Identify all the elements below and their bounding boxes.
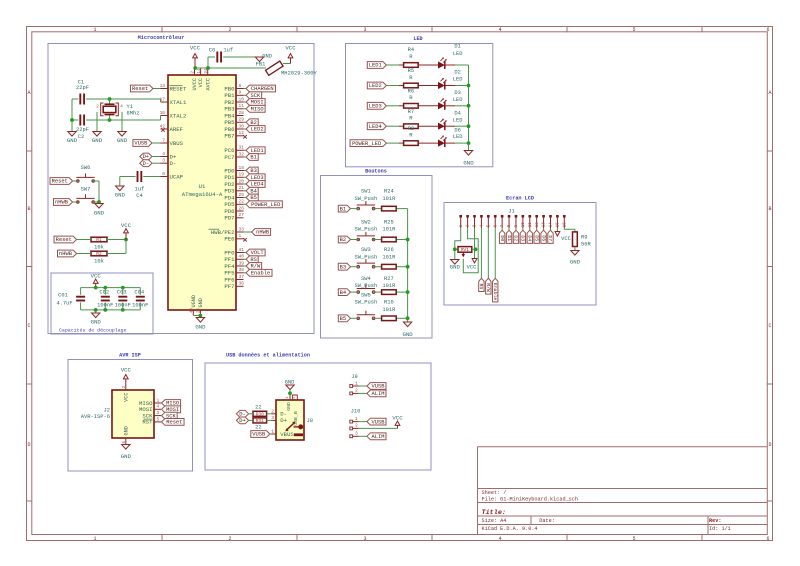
wire SW7 to junction xyxy=(73,201,99,203)
global label RS xyxy=(246,256,258,263)
no-connect AREF xyxy=(161,128,165,132)
svg-text:3: 3 xyxy=(363,536,366,542)
resistor R24 101R xyxy=(382,188,397,211)
global label VUSB at J10 xyxy=(367,418,386,425)
U1 pin 10 PB2 xyxy=(224,96,244,105)
svg-text:GND: GND xyxy=(117,137,128,144)
svg-text:GND: GND xyxy=(124,426,130,435)
svg-text:LED1: LED1 xyxy=(369,62,382,69)
ground J8 shield xyxy=(285,378,295,389)
svg-text:2: 2 xyxy=(355,388,358,394)
svg-text:C2: C2 xyxy=(78,133,85,140)
svg-text:22pF: 22pF xyxy=(76,84,89,91)
LED D3 xyxy=(438,89,462,110)
svg-text:GND: GND xyxy=(403,331,414,338)
svg-text:Microcontrôleur: Microcontrôleur xyxy=(138,35,185,41)
svg-text:28: 28 xyxy=(239,110,245,116)
U1 pin 19 PD1 xyxy=(224,172,244,181)
svg-text:D0: D0 xyxy=(499,235,505,241)
svg-text:3: 3 xyxy=(157,410,160,416)
svg-text:C4: C4 xyxy=(136,192,143,199)
U1 pin 9 PB1 xyxy=(224,90,243,99)
wire U1 ground xyxy=(193,315,200,317)
global label D1 vertical xyxy=(506,230,512,243)
capacitor C2 22pF xyxy=(76,115,89,140)
svg-text:11: 11 xyxy=(239,103,245,109)
power VCC LCD backlight xyxy=(555,232,572,243)
svg-text:2: 2 xyxy=(228,536,231,542)
resistor R1 10k xyxy=(91,237,107,250)
U1 pin 12 PB7 xyxy=(224,130,246,139)
resistor R7 R xyxy=(404,108,419,129)
svg-text:GND: GND xyxy=(285,378,295,385)
switch SW1 SW_Push xyxy=(355,188,378,210)
svg-text:1: 1 xyxy=(271,429,274,435)
svg-text:AREF: AREF xyxy=(170,126,184,133)
U1 bottom power pins UGND GND xyxy=(191,295,205,315)
svg-text:PF7: PF7 xyxy=(224,283,234,290)
svg-text:2: 2 xyxy=(96,105,99,110)
global label Reset at SW6 xyxy=(50,178,73,185)
svg-text:D5: D5 xyxy=(533,235,539,241)
svg-text:C03: C03 xyxy=(117,288,127,295)
U1 pin 28 PB4 xyxy=(224,110,244,119)
svg-text:8Mhz: 8Mhz xyxy=(127,109,140,116)
svg-text:1: 1 xyxy=(355,380,358,386)
U1 pin 8 PB0 xyxy=(224,83,243,92)
svg-text:D3: D3 xyxy=(520,235,526,241)
svg-text:Ecran LCD: Ecran LCD xyxy=(506,196,534,202)
wire PB5 to label xyxy=(244,121,247,123)
switch SW3 SW_Push xyxy=(355,246,378,268)
connector J8 USB_B xyxy=(271,395,313,441)
svg-text:FB1: FB1 xyxy=(256,60,266,67)
U1 pin 30 PB6 xyxy=(224,123,244,132)
svg-text:UCAP: UCAP xyxy=(170,173,184,180)
svg-text:100nF: 100nF xyxy=(115,302,131,309)
svg-text:R9: R9 xyxy=(581,233,588,240)
svg-text:R10: R10 xyxy=(384,299,394,306)
power VCC LCD contrast xyxy=(467,259,477,271)
connector J10 xyxy=(350,407,361,437)
U1 pin 22 PD5 xyxy=(224,199,244,208)
wire J1 pin13 to D6 xyxy=(543,228,545,230)
svg-text:5: 5 xyxy=(632,27,635,33)
svg-text:nHWB: nHWB xyxy=(256,229,270,236)
svg-text:Reset: Reset xyxy=(52,178,68,185)
svg-text:Reset: Reset xyxy=(56,236,72,243)
global label B4 xyxy=(246,187,258,194)
wire PB1 to label xyxy=(244,94,247,96)
wire J1 pin1 to ground xyxy=(455,228,461,260)
U1 pin 6 UCAP xyxy=(161,171,184,180)
wire D- to J8 xyxy=(249,413,272,415)
svg-text:VCC: VCC xyxy=(467,264,477,271)
junction J8 shield xyxy=(288,391,292,395)
svg-text:XTAL2: XTAL2 xyxy=(170,112,187,119)
capacitor C01 4.7uF xyxy=(56,288,85,310)
resistor R2 10k xyxy=(91,251,107,264)
capacitor C04 100nF xyxy=(132,288,148,310)
power VCC top left xyxy=(190,44,201,68)
J2 pin 3 SCK xyxy=(142,410,161,419)
svg-text:VCC: VCC xyxy=(121,367,132,374)
svg-text:GND: GND xyxy=(92,137,103,144)
svg-text:SW_Push: SW_Push xyxy=(355,299,378,306)
svg-text:D1: D1 xyxy=(506,235,512,241)
resistor R31 22 xyxy=(253,418,267,431)
svg-text:B1: B1 xyxy=(340,205,347,212)
wire J1 pin12 to D5 xyxy=(536,228,538,230)
wire J10 pin3 xyxy=(359,435,367,437)
svg-text:38: 38 xyxy=(239,267,245,273)
global label D2 vertical xyxy=(513,230,519,243)
svg-text:9: 9 xyxy=(239,90,242,96)
wire VUSB to U1 xyxy=(152,142,161,144)
svg-text:D1: D1 xyxy=(454,42,461,49)
wire B3 row xyxy=(351,266,408,268)
svg-text:R27: R27 xyxy=(384,275,394,282)
svg-text:1: 1 xyxy=(93,536,96,542)
wire POWER_LED row xyxy=(386,142,468,144)
svg-text:A: A xyxy=(27,90,30,96)
svg-text:3: 3 xyxy=(363,27,366,33)
U1 top power pins UVCC VCC AVCC xyxy=(192,68,212,90)
capacitor C6 1uf xyxy=(209,46,233,62)
section USB box xyxy=(205,353,431,471)
svg-text:RST: RST xyxy=(142,419,153,426)
wire LED ground bus xyxy=(468,65,470,151)
svg-text:LED: LED xyxy=(453,116,463,123)
U1 pin 11 PB3 xyxy=(224,103,244,112)
svg-text:B5: B5 xyxy=(340,315,347,322)
ground LCD contrast xyxy=(450,260,461,271)
svg-text:MISO: MISO xyxy=(251,106,264,113)
wire J1 pin8 to D1 xyxy=(508,228,510,230)
svg-text:22: 22 xyxy=(255,424,262,431)
U1 pin 1 PE6 xyxy=(224,233,246,242)
svg-text:15: 15 xyxy=(556,222,560,227)
svg-text:R: R xyxy=(409,115,413,122)
svg-text:LED4: LED4 xyxy=(369,123,382,130)
svg-text:VCC: VCC xyxy=(561,235,571,242)
svg-text:RESET: RESET xyxy=(170,85,188,92)
svg-text:VCC: VCC xyxy=(392,414,403,421)
wire J1 pin10 to D3 xyxy=(522,228,524,230)
svg-text:J1: J1 xyxy=(508,207,515,214)
wire XTAL2 net xyxy=(86,116,160,121)
resistor R9 56R xyxy=(573,232,592,248)
svg-text:nHWB: nHWB xyxy=(55,199,69,206)
U1 pin 13 RESET xyxy=(160,83,187,92)
global label D- at U1 xyxy=(140,160,152,167)
svg-text:C02: C02 xyxy=(99,288,109,295)
svg-text:SW6: SW6 xyxy=(81,164,91,171)
svg-text:101R: 101R xyxy=(382,306,396,313)
svg-text:VCC: VCC xyxy=(190,44,201,51)
svg-text:33: 33 xyxy=(239,226,245,232)
svg-text:29: 29 xyxy=(239,117,245,123)
svg-text:C: C xyxy=(768,323,771,329)
wire PD1 to label xyxy=(244,176,247,178)
global label B2 xyxy=(246,119,258,126)
wire PD2 to label xyxy=(244,183,247,185)
wire J1 pin5 to R/W xyxy=(487,228,489,278)
svg-text:36: 36 xyxy=(239,281,245,287)
ground crystal case left xyxy=(92,132,103,145)
ground decoupling xyxy=(91,313,102,326)
svg-text:R25: R25 xyxy=(384,218,394,225)
svg-text:16: 16 xyxy=(563,222,567,227)
svg-text:40: 40 xyxy=(239,254,245,260)
svg-text:GND: GND xyxy=(262,53,272,60)
global label POWER_LED xyxy=(350,140,386,147)
wire J1 pin9 to D2 xyxy=(515,228,517,230)
svg-text:D2: D2 xyxy=(513,235,519,241)
global label ALIM at J10 xyxy=(367,433,386,440)
svg-text:D+: D+ xyxy=(280,417,287,424)
power VCC J2 xyxy=(121,367,132,384)
svg-text:VCC: VCC xyxy=(124,393,130,402)
global label D+ at J8 xyxy=(236,417,248,424)
resistor R10 101R xyxy=(382,299,397,321)
U1 pin 42 AREF xyxy=(160,123,183,132)
global label VUSB at VBUS pin xyxy=(133,140,152,147)
capacitor C02 100nF xyxy=(97,288,113,310)
svg-text:26: 26 xyxy=(239,205,245,211)
wire J1 pin14 to D7 xyxy=(549,228,551,230)
svg-text:1: 1 xyxy=(355,416,358,422)
svg-text:VUSB: VUSB xyxy=(252,431,266,438)
svg-text:10: 10 xyxy=(239,96,245,102)
LED D6 xyxy=(438,126,462,147)
global label LED1 xyxy=(367,62,386,69)
svg-text:19: 19 xyxy=(239,172,245,178)
wire J10 pin2 to VCC xyxy=(359,427,398,429)
svg-text:LED2: LED2 xyxy=(369,82,382,89)
svg-text:GND: GND xyxy=(67,137,78,144)
svg-text:LED: LED xyxy=(453,76,463,83)
ferrite bead FB1 MH2029-300Y xyxy=(266,61,284,75)
U1 pin 21 PD3 xyxy=(224,185,244,194)
op-amp U1 ATmega16U4-A body xyxy=(168,75,236,310)
svg-text:R: R xyxy=(409,94,413,101)
wire B4 row xyxy=(351,291,408,293)
global label B1 xyxy=(338,205,350,212)
U1 pin 32 PC7 xyxy=(224,151,244,160)
svg-text:10k: 10k xyxy=(94,244,104,251)
wire B1 row xyxy=(351,208,408,210)
global label ALIM at J9 xyxy=(367,390,386,397)
global label D6 vertical xyxy=(540,230,546,243)
svg-text:VUSB: VUSB xyxy=(372,383,386,390)
wire decoupling top bus xyxy=(81,287,141,289)
junction R1 R2 VCC xyxy=(124,238,128,242)
svg-text:SW_Push: SW_Push xyxy=(355,253,378,260)
svg-text:1: 1 xyxy=(239,233,242,239)
svg-text:ATmega16U4-A: ATmega16U4-A xyxy=(182,191,223,198)
svg-text:GND: GND xyxy=(450,264,461,271)
svg-text:LED: LED xyxy=(453,133,463,140)
svg-text:6: 6 xyxy=(162,171,165,177)
power VCC J10 xyxy=(392,414,403,428)
svg-text:GND: GND xyxy=(570,259,581,266)
capacitor C4 1uf xyxy=(135,171,145,199)
global label CHARGEN xyxy=(246,85,275,92)
wire J1 pin2 to RV1 wiper xyxy=(463,228,478,273)
wire PF1 to label xyxy=(244,258,247,260)
svg-text:C04: C04 xyxy=(134,288,144,295)
ground J2 xyxy=(121,445,132,461)
connector J1 pin header xyxy=(459,207,567,228)
svg-text:11: 11 xyxy=(529,222,533,227)
svg-text:J8: J8 xyxy=(307,417,314,424)
section Boutons box xyxy=(321,169,433,339)
svg-text:AVR ISP: AVR ISP xyxy=(119,353,141,359)
svg-text:Id: 1/1: Id: 1/1 xyxy=(709,526,731,532)
svg-text:4: 4 xyxy=(120,105,123,110)
global label LED1 xyxy=(246,147,265,154)
wire R1 to VCC xyxy=(77,240,126,254)
svg-text:4: 4 xyxy=(157,404,160,410)
svg-text:VBUS: VBUS xyxy=(280,431,294,438)
svg-text:32: 32 xyxy=(239,151,245,157)
svg-text:B3: B3 xyxy=(340,263,347,270)
svg-text:PB7: PB7 xyxy=(224,133,234,140)
svg-text:10: 10 xyxy=(522,222,526,227)
wire XTAL1 net xyxy=(86,99,161,102)
global label MISO xyxy=(246,105,265,112)
svg-text:Date:: Date: xyxy=(539,518,555,524)
svg-text:SW7: SW7 xyxy=(81,186,91,193)
svg-text:2: 2 xyxy=(271,408,274,414)
resistor R6 R xyxy=(404,88,419,109)
svg-text:Size: A4: Size: A4 xyxy=(482,518,507,524)
section Ecran LCD box xyxy=(444,196,596,306)
svg-text:22: 22 xyxy=(239,199,245,205)
global label B1 xyxy=(246,154,258,161)
svg-text:R24: R24 xyxy=(384,188,394,195)
svg-text:13: 13 xyxy=(543,222,547,227)
svg-text:UGND: UGND xyxy=(191,295,197,307)
wire C1 C2 left to ground xyxy=(72,99,78,132)
ground SW6 SW7 xyxy=(94,204,105,217)
svg-text:KiCad E.D.A. 9.0.4: KiCad E.D.A. 9.0.4 xyxy=(482,526,538,532)
svg-text:10k: 10k xyxy=(94,258,104,265)
ground U1 bottom xyxy=(195,318,206,331)
svg-text:USB données et alimentation: USB données et alimentation xyxy=(226,353,310,359)
wire C6 to GND xyxy=(223,56,255,58)
svg-text:VUSB: VUSB xyxy=(134,140,148,147)
wire J1 pin7 to D0 xyxy=(501,228,503,230)
svg-text:GND: GND xyxy=(121,453,132,460)
svg-text:GND: GND xyxy=(463,160,474,167)
global label D7 vertical xyxy=(547,230,553,243)
wire J1 pin16 to R9 xyxy=(564,228,575,232)
svg-text:VCC: VCC xyxy=(285,44,296,51)
svg-text:C6: C6 xyxy=(209,46,216,53)
global label Reset at R1 xyxy=(54,236,77,243)
junction SW7 xyxy=(97,200,101,204)
svg-text:D-: D- xyxy=(170,160,177,167)
U1 pin 37 PF6 xyxy=(224,274,244,283)
LED D1 xyxy=(438,42,462,69)
junction crystal nets xyxy=(70,97,111,122)
wire J9 pins xyxy=(359,386,367,393)
global label SCK xyxy=(246,92,262,99)
wire J10 pin1 xyxy=(359,421,367,423)
wire VCC rail xyxy=(195,57,267,68)
global label B2 xyxy=(338,236,350,243)
svg-text:C: C xyxy=(27,323,30,329)
junction RV1 left xyxy=(453,247,457,251)
svg-text:43: 43 xyxy=(191,308,195,313)
global label D5 vertical xyxy=(533,230,539,243)
power VCC decoupling xyxy=(91,272,102,287)
global label LED3 xyxy=(246,174,265,181)
global label Enable vertical xyxy=(492,278,498,302)
svg-text:SW5: SW5 xyxy=(361,291,371,298)
U1 pin 26 PD6 xyxy=(224,205,244,214)
svg-text:UVCC: UVCC xyxy=(192,78,198,90)
U1 pin 40 PF1 xyxy=(224,254,244,263)
wire LED3 row xyxy=(386,105,468,107)
svg-text:D-: D- xyxy=(143,160,150,167)
svg-text:ALIM: ALIM xyxy=(372,390,385,397)
junction VCC rail left xyxy=(193,66,210,70)
connector J2 AVR-ISP-6 xyxy=(81,384,154,445)
U1 pin 20 PD2 xyxy=(224,178,244,187)
global label D+ at U1 xyxy=(140,153,152,160)
svg-text:25: 25 xyxy=(239,192,245,198)
svg-text:VCC: VCC xyxy=(121,222,132,229)
svg-text:Title:: Title: xyxy=(482,509,506,517)
svg-text:GND: GND xyxy=(286,402,292,411)
wire J1 pin15 to VCC xyxy=(556,228,558,232)
J2 pin 5 RST xyxy=(142,416,161,425)
U1 pin 17 XTAL1 xyxy=(160,96,187,105)
svg-text:D6: D6 xyxy=(540,235,546,241)
svg-text:14: 14 xyxy=(550,222,554,227)
wire FB1 to VCC xyxy=(283,63,291,65)
svg-text:5: 5 xyxy=(157,416,160,422)
svg-text:J10: J10 xyxy=(351,407,361,414)
svg-text:R: R xyxy=(409,74,413,81)
svg-text:B4: B4 xyxy=(340,289,347,296)
svg-text:R26: R26 xyxy=(384,246,394,253)
wire button ground bus xyxy=(407,209,409,322)
svg-text:30: 30 xyxy=(239,123,245,129)
switch SW7 xyxy=(76,186,94,204)
svg-text:GND: GND xyxy=(195,324,206,331)
switch SW5 SW_Push xyxy=(355,291,378,319)
wire PB0 to label xyxy=(244,88,247,90)
wire LED2 row xyxy=(386,85,468,87)
global label LED4 xyxy=(367,123,386,130)
global label nHWB at SW7 xyxy=(54,199,73,206)
ground buttons xyxy=(403,322,414,338)
ground R9 xyxy=(570,251,581,266)
LED D4 xyxy=(438,109,462,130)
svg-text:4: 4 xyxy=(498,536,501,542)
junction U1 ground xyxy=(199,314,203,318)
global label LED3 xyxy=(367,102,386,109)
svg-text:5: 5 xyxy=(293,396,297,399)
svg-text:LED: LED xyxy=(453,50,463,57)
svg-text:RV1: RV1 xyxy=(461,247,469,253)
svg-text:LED3: LED3 xyxy=(369,103,382,110)
svg-text:LED: LED xyxy=(413,36,422,42)
